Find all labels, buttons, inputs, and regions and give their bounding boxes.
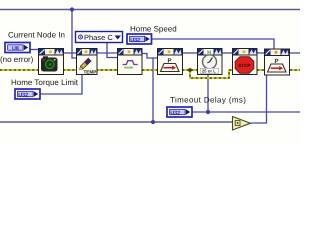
svg-text:U32: U32 [18, 92, 28, 98]
terminal U32 Home Speed [127, 34, 152, 44]
subVI U2 write TEMP icon [77, 49, 98, 75]
svg-text:25 or L: 25 or L [202, 69, 216, 74]
subVI U7 start motion P icon [265, 49, 290, 75]
svg-text:Phase C: Phase C [84, 33, 113, 42]
wire error bypass under U5 [190, 70, 232, 78]
wire Home Speed to U7 top [151, 39, 274, 50]
node junction bottom rail [151, 120, 155, 124]
subVI U5 wait clock icon [198, 49, 223, 75]
wire error dashed segments [0, 69, 300, 71]
svg-text:Home Speed: Home Speed [130, 25, 177, 34]
terminal U8 Current Node In [5, 43, 30, 53]
wire triangle output up to U7 bottom [251, 75, 267, 123]
wire U6 to U7 [257, 52, 264, 54]
wire branch down to U2 [72, 10, 77, 59]
svg-text:U32: U32 [170, 110, 180, 116]
svg-text:TEMP: TEMP [84, 69, 97, 74]
node junction error wire [188, 68, 192, 72]
wire U5 to U6 [222, 52, 232, 54]
enum constant Phase C [76, 32, 123, 43]
subVI U1 camera init icon [39, 49, 64, 75]
wire branch bottom rail up to U4 input [142, 54, 157, 59]
wire Home Torque Limit to U2 bottom [40, 75, 82, 94]
terminal U32 Timeout Delay [167, 107, 192, 117]
svg-text:Home Torque Limit: Home Torque Limit [11, 78, 79, 87]
svg-text:Current Node In: Current Node In [8, 31, 65, 40]
wire bottom rail [0, 121, 233, 123]
subVI U3 find reference pulse icon [118, 49, 143, 75]
wire U8 terminal to U1 [29, 49, 39, 51]
node junction top rail [70, 7, 74, 11]
wire U4 to U5 [182, 52, 197, 54]
subVI U6 stop motion icon [233, 49, 258, 75]
subVI U4 load position P icon [158, 49, 183, 75]
svg-text:U32: U32 [130, 37, 140, 43]
wire enum to U3 [107, 43, 117, 58]
svg-text:(no error): (no error) [0, 55, 34, 64]
svg-text:U8: U8 [12, 46, 19, 52]
wire U7 to right edge [290, 52, 300, 54]
svg-text:STOP: STOP [238, 63, 250, 68]
svg-text:Timeout Delay (ms): Timeout Delay (ms) [170, 96, 246, 105]
wire U2 to U3 [96, 52, 118, 54]
wire top rail [0, 9, 300, 11]
converter triangle node [233, 117, 251, 131]
terminal U32 Home Torque Limit [15, 89, 40, 99]
wire Timeout Delay to U5 bottom and right edge [192, 111, 300, 113]
wire U1 to U2 [63, 52, 77, 54]
node junction timeout [206, 110, 210, 114]
